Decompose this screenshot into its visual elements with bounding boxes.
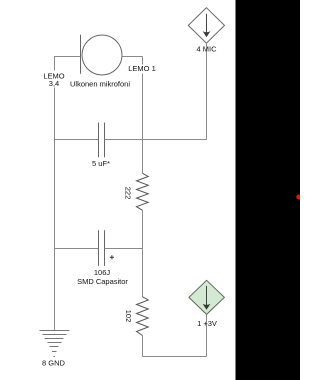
svg-text:3,4: 3,4 [49, 79, 59, 88]
capacitor C1 plates [99, 123, 105, 158]
wire: 3V rail to bottom wire [206, 314, 208, 356]
wire: 4 MIC rail down to C1 wire [206, 43, 208, 139]
wire: rail between R1 and R2 [142, 210, 144, 296]
svg-text:222: 222 [124, 187, 133, 200]
resistor R2 zigzag [137, 297, 149, 336]
red indicator dot [296, 195, 301, 200]
microphone U1 body circle [82, 35, 122, 75]
svg-text:LEMO 1: LEMO 1 [128, 64, 156, 73]
wire: microphone right to rail [122, 56, 143, 58]
svg-text:1 +3V: 1 +3V [197, 319, 217, 328]
microphone U1 diaphragm line [80, 35, 82, 74]
ground symbol [40, 331, 70, 357]
capacitor C1 left wire [55, 139, 99, 141]
wire: left rail lower segment [54, 88, 56, 330]
black side panel [236, 0, 301, 380]
capacitor C2 right wire [105, 248, 143, 250]
svg-text:8 GND: 8 GND [42, 358, 66, 367]
wire: right rail to resistor R1 [142, 74, 144, 174]
capacitor C1 right wire to MIC rail [105, 139, 207, 141]
current source 4 MIC arrow [206, 14, 208, 34]
svg-text:102: 102 [124, 310, 133, 323]
svg-text:SMD Capasitor: SMD Capasitor [77, 277, 128, 286]
capacitor C2 left wire [55, 248, 99, 250]
capacitor C2 plates [99, 230, 105, 266]
wire: top-left horizontal to microphone [54, 56, 81, 58]
capacitor C2 polarity plus [110, 255, 114, 259]
wire: left rail upper segment [54, 57, 56, 71]
resistor R1 zigzag [137, 173, 149, 210]
current source 4 MIC diamond [188, 8, 224, 44]
wire: right rail upper stub [142, 57, 144, 65]
wire: bottom horizontal [143, 356, 207, 358]
wire: R2 bottom to corner [142, 336, 144, 357]
svg-text:106J: 106J [94, 268, 111, 277]
svg-text:Ulkonen mikrofoni: Ulkonen mikrofoni [70, 80, 130, 89]
svg-text:5 uF*: 5 uF* [92, 159, 110, 168]
voltage source 1 +3V arrow [206, 286, 208, 306]
svg-text:4 MIC: 4 MIC [196, 44, 217, 53]
voltage source 1 +3V diamond [189, 280, 225, 314]
